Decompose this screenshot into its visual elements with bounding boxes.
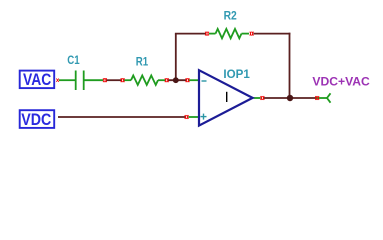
- svg-text:R2: R2: [224, 11, 237, 23]
- svg-text:VAC: VAC: [23, 71, 51, 89]
- svg-text:R1: R1: [136, 56, 149, 68]
- svg-text:IOP1: IOP1: [223, 69, 250, 81]
- svg-text:VDC: VDC: [21, 111, 51, 129]
- svg-text:C1: C1: [67, 55, 80, 67]
- svg-text:VDC+VAC: VDC+VAC: [312, 75, 370, 89]
